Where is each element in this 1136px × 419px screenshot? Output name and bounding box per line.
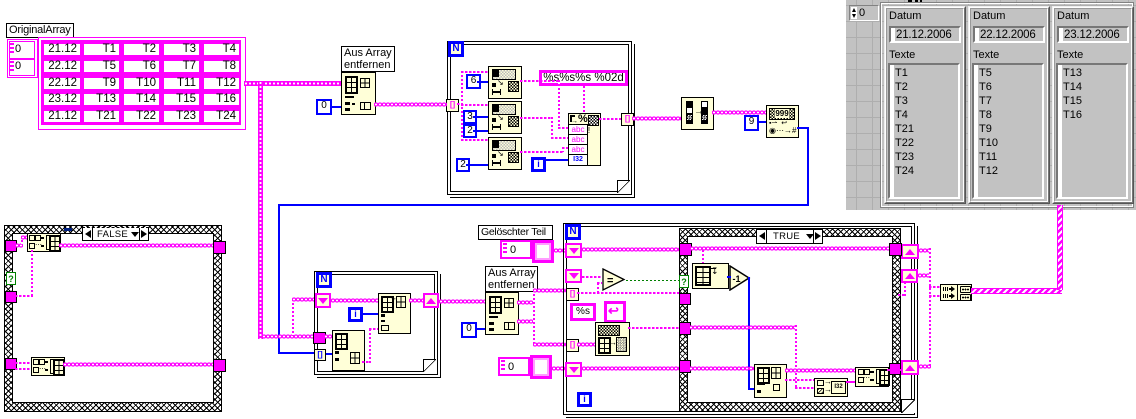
svg-text:-1: -1	[733, 274, 741, 284]
svg-text:=: =	[607, 275, 613, 287]
